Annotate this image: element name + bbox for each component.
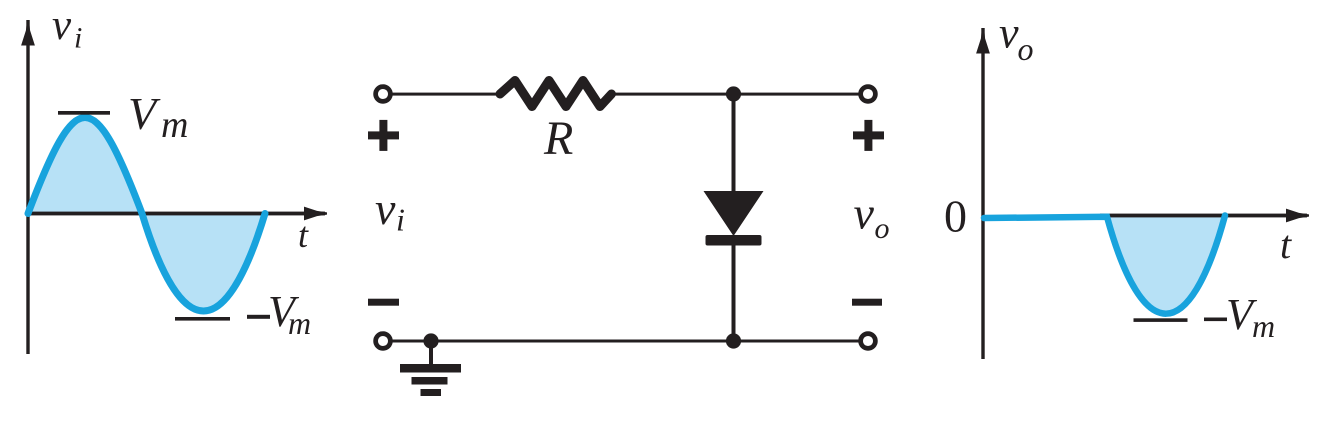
svg-text:vo: vo — [854, 188, 890, 246]
plus sign (output) — [853, 120, 884, 151]
left graph vertical axis (vi axis) — [21, 20, 35, 354]
wire: top right (resistor to output terminal) — [612, 93, 860, 96]
terminal: input bottom — [376, 334, 391, 349]
label -Vm (right graph) — [1204, 290, 1275, 344]
negative Vm bar (left graph) — [175, 317, 230, 321]
minus sign (output) — [852, 299, 882, 306]
wire: top left (input terminal to resistor) — [390, 93, 504, 96]
diode D1 — [704, 191, 764, 246]
right graph horizontal axis (t axis) — [1100, 209, 1309, 223]
ground symbol — [400, 341, 461, 396]
svg-text:vi: vi — [375, 183, 405, 238]
plus sign (input) — [368, 120, 399, 151]
left graph: input sine wave fill — [28, 118, 265, 312]
svg-text:vi: vi — [52, 2, 82, 55]
svg-text:t: t — [1280, 222, 1292, 267]
node: ground junction — [423, 333, 438, 348]
svg-text:R: R — [543, 112, 573, 165]
right graph output wave stroke (flat at zero then negative dip) — [984, 216, 1225, 314]
node: top junction (diode anode) — [726, 86, 741, 101]
terminal: output top — [861, 87, 876, 102]
minus sign (input) — [368, 299, 399, 306]
right graph: output wave fill — [1107, 216, 1225, 314]
svg-text:Vm: Vm — [1226, 290, 1275, 344]
svg-text:0: 0 — [944, 191, 967, 242]
right graph vertical axis (vo axis) — [976, 28, 990, 359]
left graph horizontal axis (t axis) — [28, 207, 327, 221]
label -Vm (left graph) — [247, 287, 311, 341]
Vm peak bar — [58, 111, 110, 115]
wire: diode branch upper — [732, 94, 736, 194]
wire: diode branch lower — [732, 243, 736, 341]
left graph sine wave stroke — [28, 118, 265, 312]
terminal: output bottom — [861, 334, 876, 349]
svg-text:t: t — [298, 215, 309, 255]
negative Vm bar (right graph) — [1134, 318, 1188, 322]
svg-text:Vm: Vm — [268, 287, 311, 341]
wire: bottom (left terminal to right terminal) — [390, 340, 860, 343]
svg-text:Vm: Vm — [128, 88, 188, 146]
terminal: input top — [376, 87, 391, 102]
resistor R — [500, 81, 612, 107]
svg-text:vo: vo — [999, 9, 1034, 68]
node: bottom junction (diode cathode) — [726, 333, 741, 348]
